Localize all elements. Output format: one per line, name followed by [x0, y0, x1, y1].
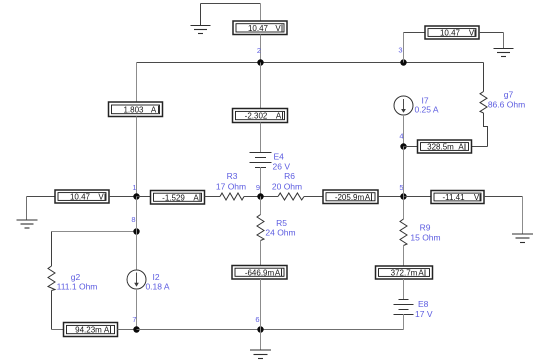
- ammeter 94.23m A (bottom left): [64, 323, 118, 337]
- wire battery E8 down to bottom rail: [403, 314, 405, 330]
- wire left column top: [136, 63, 138, 102]
- wire down to mid-left ground: [26, 197, 28, 220]
- wire bottom rail: [137, 329, 404, 331]
- svg-text:-2.302: -2.302: [245, 112, 268, 121]
- wire left column mid: [136, 117, 138, 197]
- wire into top-right voltmeter left: [404, 32, 426, 34]
- wire node 9 down to R5: [260, 197, 262, 215]
- wire g7 branch down from top: [483, 63, 485, 92]
- svg-text:372.7m: 372.7m: [391, 269, 418, 278]
- resistor g7: [480, 92, 487, 114]
- svg-text:V: V: [469, 29, 475, 38]
- wire ammeter to battery E8: [403, 279, 405, 300]
- svg-text:A: A: [193, 193, 199, 202]
- svg-text:9: 9: [256, 183, 260, 192]
- node junction dot at (403,146): [400, 143, 406, 149]
- svg-text:2: 2: [257, 46, 261, 55]
- svg-text:24 Ohm: 24 Ohm: [265, 228, 295, 238]
- voltmeter -11.41 V (mid right): [431, 191, 484, 204]
- wire top-left horizontal to voltmeter column: [201, 3, 261, 5]
- svg-text:5: 5: [399, 183, 403, 192]
- ammeter -646.9m A (mid column bottom): [232, 266, 287, 280]
- wire voltmeter to node 1: [109, 196, 137, 198]
- svg-text:-646.9m: -646.9m: [245, 268, 275, 277]
- wire top-right voltmeter to ground: [479, 32, 504, 34]
- wire mid column top: [260, 63, 262, 109]
- wire g2 bottom to ammeter 94.23m: [52, 329, 64, 331]
- svg-text:15 Ohm: 15 Ohm: [410, 233, 440, 243]
- svg-text:E4: E4: [274, 152, 285, 162]
- node junction dot at (260,62): [257, 59, 263, 65]
- wire R5 down to ammeter -646.9m: [260, 241, 262, 266]
- svg-text:g2: g2: [71, 272, 81, 282]
- svg-text:A: A: [276, 112, 282, 121]
- svg-text:E8: E8: [418, 299, 429, 309]
- node junction dot at (260,196): [257, 193, 263, 199]
- svg-text:328.5m: 328.5m: [427, 143, 454, 152]
- wire ammeter to node 5: [378, 196, 404, 198]
- svg-text:A: A: [104, 326, 110, 335]
- ammeter -2.302 A (mid column): [233, 109, 288, 123]
- wire down to right ground: [522, 197, 524, 234]
- svg-text:R9: R9: [420, 223, 431, 233]
- wire left column node1 to node8: [136, 197, 138, 232]
- current source I2: [127, 270, 146, 289]
- svg-text:8: 8: [131, 215, 135, 224]
- node junction dot at (136,231): [133, 228, 139, 234]
- svg-text:0.18 A: 0.18 A: [145, 282, 169, 292]
- svg-text:A: A: [275, 268, 281, 277]
- wire ammeter down to node 6: [260, 279, 262, 330]
- node junction dot at (403,196): [400, 193, 406, 199]
- wire voltmeter to right ground: [484, 196, 523, 198]
- resistor R3: [220, 193, 244, 200]
- wire node 1 to ammeter -1.529: [137, 196, 151, 198]
- svg-text:94.23m: 94.23m: [75, 326, 102, 335]
- svg-text:R3: R3: [227, 171, 238, 181]
- svg-text:1: 1: [132, 183, 136, 192]
- svg-text:6: 6: [255, 315, 259, 324]
- ground bottom center: [250, 350, 271, 359]
- wire node4 down to node 5: [403, 147, 405, 197]
- svg-text:17 Ohm: 17 Ohm: [216, 182, 246, 192]
- svg-text:R5: R5: [276, 218, 287, 228]
- svg-text:111.1 Ohm: 111.1 Ohm: [57, 282, 98, 292]
- svg-text:20 Ohm: 20 Ohm: [272, 182, 302, 192]
- svg-text:7: 7: [132, 315, 136, 324]
- resistor R9: [400, 219, 407, 246]
- resistor R6: [278, 193, 304, 200]
- svg-text:A: A: [418, 269, 424, 278]
- wire R9 to ammeter 372.7m: [403, 246, 405, 266]
- wire g2 down to bottom: [51, 291, 53, 330]
- node junction dot at (403,62): [400, 59, 406, 65]
- node junction dot at (136,329): [133, 326, 139, 332]
- svg-text:0.25 A: 0.25 A: [414, 105, 438, 115]
- svg-text:4: 4: [399, 132, 403, 141]
- svg-text:10.47: 10.47: [248, 24, 269, 33]
- svg-text:10.47: 10.47: [440, 29, 461, 38]
- wire node3 vertical up to top-right voltmeter: [403, 33, 405, 63]
- wire battery E4 to node 9: [260, 167, 262, 197]
- svg-text:I2: I2: [152, 272, 159, 282]
- svg-text:10.47: 10.47: [70, 193, 91, 202]
- wire node 4 to ammeter 328.5m: [404, 146, 418, 148]
- svg-text:-1.529: -1.529: [162, 193, 185, 202]
- svg-text:-205.9m: -205.9m: [335, 193, 365, 202]
- ammeter -205.9m A (mid row): [323, 190, 378, 204]
- battery E4: [250, 153, 272, 168]
- wire top main horizontal: [137, 62, 404, 64]
- wire node 5 to voltmeter -11.41: [404, 196, 432, 198]
- ammeter -1.529 A (mid row): [151, 191, 205, 205]
- svg-text:86.6 Ohm: 86.6 Ohm: [488, 100, 525, 110]
- wire drop into top voltmeter: [260, 4, 262, 21]
- wire top horizontal to g7 branch: [404, 62, 484, 64]
- wire I7 to node 4: [403, 115, 405, 147]
- wire mid column to battery E4: [260, 123, 262, 153]
- current source I7: [394, 96, 413, 115]
- wire ground stem top-left vertical: [200, 4, 202, 26]
- svg-text:17 V: 17 V: [415, 309, 433, 319]
- battery E8: [394, 300, 414, 315]
- wire voltmeter to node 2: [260, 35, 262, 63]
- voltmeter 10.47 V (top right): [425, 26, 479, 39]
- ammeter 328.5m A (right): [418, 140, 472, 153]
- svg-text:A: A: [365, 193, 371, 202]
- wire mid-left voltmeter to ground: [27, 196, 56, 198]
- wire node 6 down to bottom ground: [260, 330, 262, 350]
- voltmeter 10.47 V (mid left): [55, 190, 109, 203]
- svg-text:-11.41: -11.41: [442, 193, 465, 202]
- wire node 8 branch to g2: [52, 231, 137, 233]
- ground top-left: [191, 26, 211, 34]
- resistor R5: [257, 215, 264, 241]
- svg-text:V: V: [275, 24, 281, 33]
- svg-text:V: V: [474, 193, 480, 202]
- wire I2 down to node 7: [136, 289, 138, 330]
- wire g7 to ammeter 328.5m with jog: [484, 113, 488, 147]
- node junction dot at (136,196): [133, 193, 139, 199]
- node junction dot at (260,329): [257, 326, 263, 332]
- svg-text:A: A: [458, 143, 464, 152]
- wire down to top-right ground: [503, 33, 505, 49]
- resistor g2: [48, 266, 55, 291]
- svg-text:g7: g7: [504, 90, 514, 100]
- ammeter 372.7m A (right column): [376, 266, 433, 279]
- wire R3 to node 9 to R6: [244, 196, 278, 198]
- wire ammeter to resistor R3: [205, 196, 221, 198]
- wire R6 to ammeter -205.9m: [304, 196, 323, 198]
- svg-text:V: V: [98, 193, 104, 202]
- ammeter 1.803 A (left column): [109, 102, 163, 117]
- voltmeter 10.47 V (top center): [233, 21, 287, 35]
- ground mid-left: [17, 220, 38, 228]
- wire node8 down to current source I2: [136, 232, 138, 271]
- ground top-right: [494, 49, 514, 57]
- svg-text:3: 3: [398, 46, 402, 55]
- svg-text:R6: R6: [284, 171, 295, 181]
- wire ammeter to node 7: [118, 329, 137, 331]
- svg-text:A: A: [151, 106, 157, 115]
- wire jog to ammeter right edge: [472, 146, 488, 148]
- ground mid-right: [512, 234, 533, 243]
- wire node 5 down to R9: [403, 197, 405, 220]
- wire g2 branch down: [51, 232, 53, 267]
- svg-text:1.803: 1.803: [123, 106, 144, 115]
- svg-text:26 V: 26 V: [273, 162, 291, 172]
